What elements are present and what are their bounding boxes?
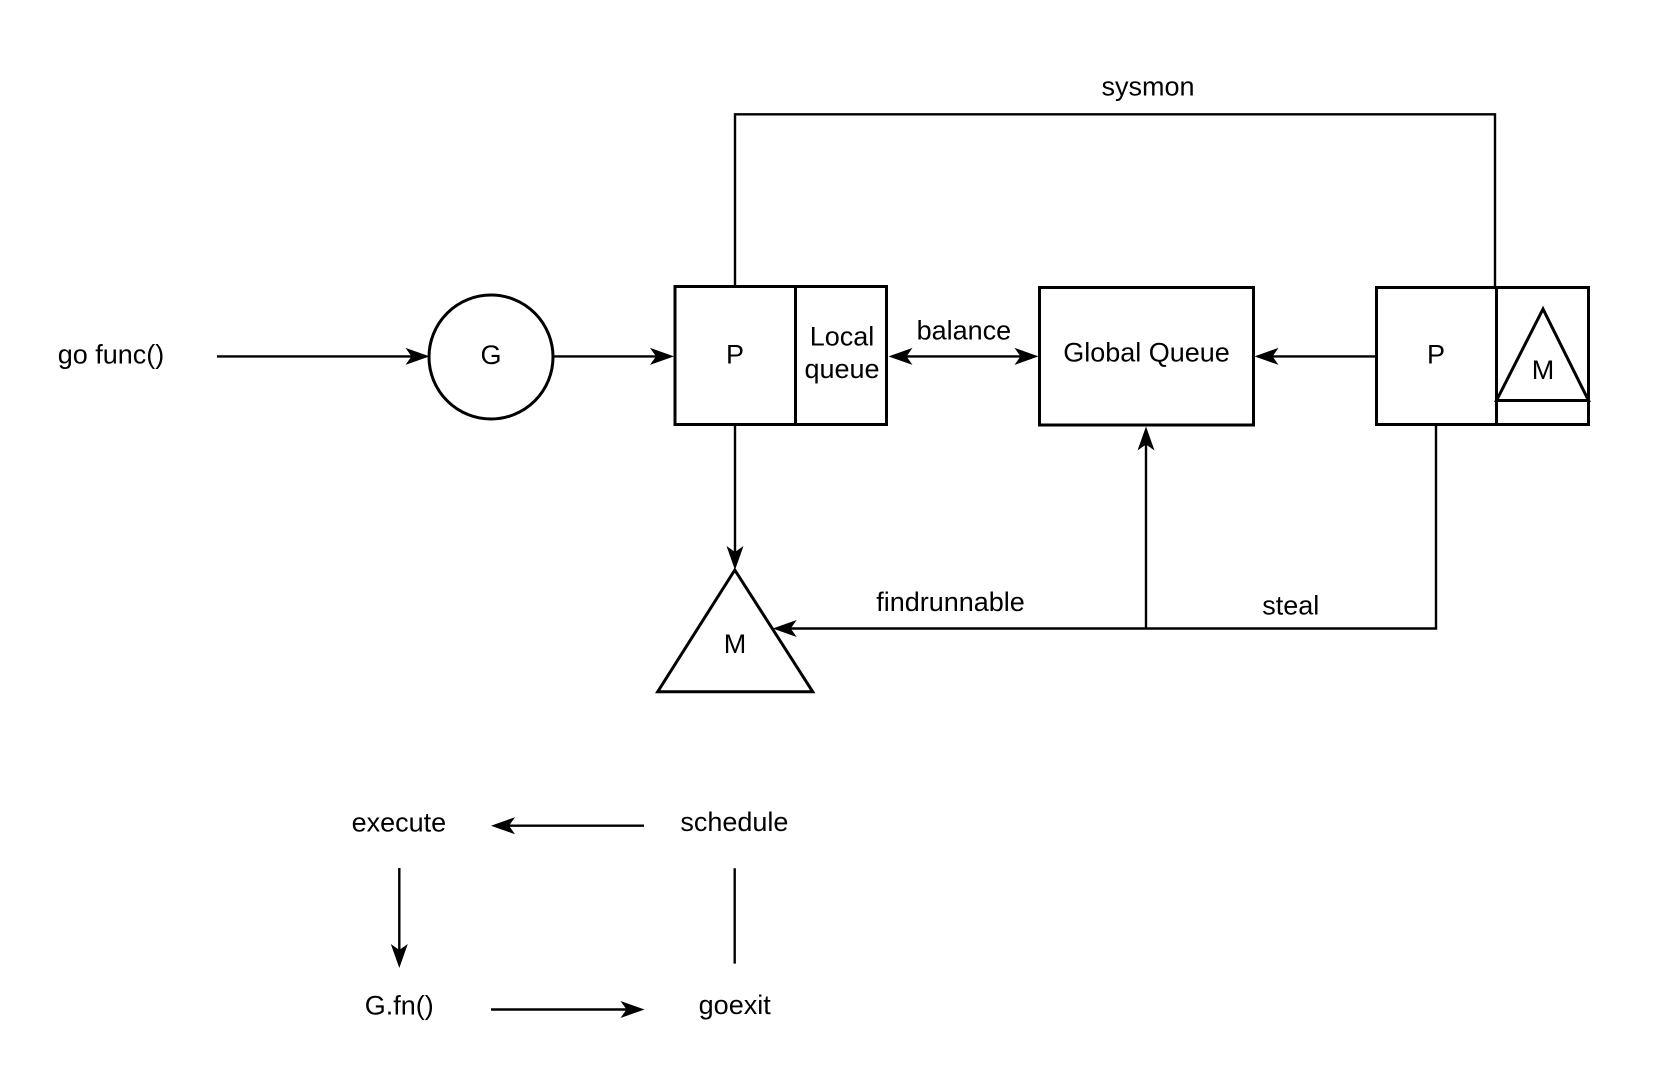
svg-text:execute: execute [352, 808, 447, 838]
svg-text:sysmon: sysmon [1101, 71, 1194, 101]
svg-text:Global Queue: Global Queue [1063, 338, 1230, 368]
svg-text:M: M [724, 629, 747, 659]
wire left P down to M [727, 425, 744, 571]
wire balance (double arrow) [889, 348, 1039, 365]
node Global Queue [1040, 288, 1254, 426]
svg-text:schedule: schedule [680, 807, 788, 837]
wire right P to Global Queue [1255, 348, 1376, 365]
wire sysmon loop [735, 114, 1495, 288]
wire schedule to execute [491, 817, 644, 834]
svg-text:go func(): go func() [58, 340, 165, 370]
svg-text:steal: steal [1262, 591, 1319, 621]
wire steal (right P down and left to M) [773, 425, 1436, 638]
wire go func() to G [217, 348, 430, 365]
node M (middle triangle) [658, 570, 813, 692]
node P with Local queue (left box) [675, 287, 887, 425]
svg-text:P: P [1427, 340, 1445, 370]
wire execute down to G.fn() [391, 868, 408, 968]
wire findrunnable up to Global Queue [1138, 427, 1155, 629]
svg-text:queue: queue [804, 354, 879, 384]
svg-text:balance: balance [917, 315, 1012, 345]
node G (goroutine circle) [429, 295, 553, 419]
svg-text:findrunnable: findrunnable [876, 587, 1025, 617]
wire G.fn() to goexit [491, 1001, 645, 1018]
node P with M (right box) [1377, 288, 1589, 425]
svg-text:Local: Local [810, 322, 875, 352]
node M (triangle in right box) [1497, 309, 1589, 401]
wire G to P box [553, 348, 674, 365]
svg-text:goexit: goexit [699, 990, 772, 1020]
svg-text:M: M [1532, 355, 1555, 385]
svg-text:P: P [726, 340, 744, 370]
svg-text:G: G [480, 340, 501, 370]
wire schedule down to goexit [734, 868, 736, 963]
svg-text:G.fn(): G.fn() [365, 991, 434, 1021]
